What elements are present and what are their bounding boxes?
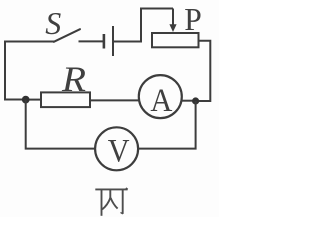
svg-text:V: V: [108, 134, 130, 170]
wire: potentiometer right terminal to right vertical: [199, 41, 211, 101]
potentiometer P wiper arrowhead: [169, 24, 176, 32]
svg-text:R: R: [61, 59, 86, 99]
battery short plate (negative): [103, 34, 106, 49]
caption character 丙: [95, 188, 128, 216]
ammeter U1 circle: [139, 75, 182, 118]
wire: node A to resistor: [26, 99, 41, 101]
node A junction dot: [22, 96, 30, 104]
voltmeter U2 circle: [95, 127, 138, 170]
battery long plate (positive): [112, 26, 114, 56]
wire: switch contact to battery: [79, 40, 104, 42]
switch S blade: [54, 29, 80, 42]
wire: node A down and right to voltmeter: [26, 100, 96, 149]
potentiometer P wiper arrow shaft: [172, 9, 174, 26]
resistor R body: [41, 92, 90, 107]
wire: battery to top, over to wiper arrow: [113, 9, 173, 42]
svg-text:S: S: [45, 5, 61, 41]
svg-text:A: A: [150, 83, 172, 119]
node B junction dot: [192, 97, 199, 104]
wire: top-left horizontal and left vertical down to node A: [5, 42, 54, 100]
svg-text:P: P: [184, 2, 202, 37]
potentiometer P body: [152, 33, 199, 47]
wire: node B down and left to voltmeter: [138, 101, 195, 149]
wire: ammeter to node B: [182, 100, 193, 102]
wire: resistor to ammeter: [90, 99, 139, 101]
